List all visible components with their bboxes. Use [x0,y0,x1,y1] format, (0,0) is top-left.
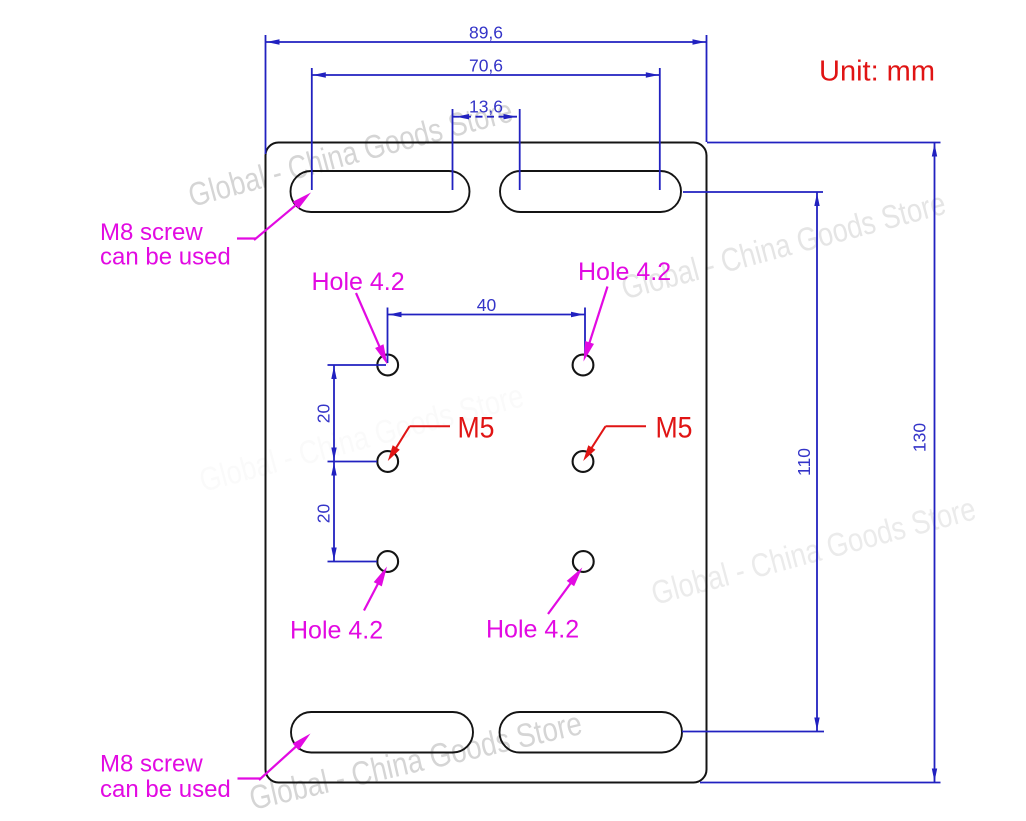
svg-text:89,6: 89,6 [469,23,503,43]
svg-text:can be used: can be used [100,776,231,803]
svg-text:M8 screw: M8 screw [100,219,203,246]
svg-text:M5: M5 [656,412,693,445]
svg-text:M8 screw: M8 screw [100,751,203,778]
svg-text:110: 110 [794,448,814,476]
svg-text:70,6: 70,6 [469,56,503,76]
svg-text:Hole 4.2: Hole 4.2 [312,268,405,296]
svg-text:Hole 4.2: Hole 4.2 [290,617,383,645]
svg-text:40: 40 [477,295,497,315]
svg-text:13,6: 13,6 [469,97,503,117]
svg-text:Hole 4.2: Hole 4.2 [486,616,579,644]
svg-text:130: 130 [910,423,930,452]
svg-text:Unit: mm: Unit: mm [819,56,935,88]
svg-text:20: 20 [314,404,334,424]
svg-text:20: 20 [314,504,334,524]
svg-text:Hole 4.2: Hole 4.2 [578,258,671,286]
svg-text:can be used: can be used [100,244,231,271]
svg-text:M5: M5 [458,412,495,445]
